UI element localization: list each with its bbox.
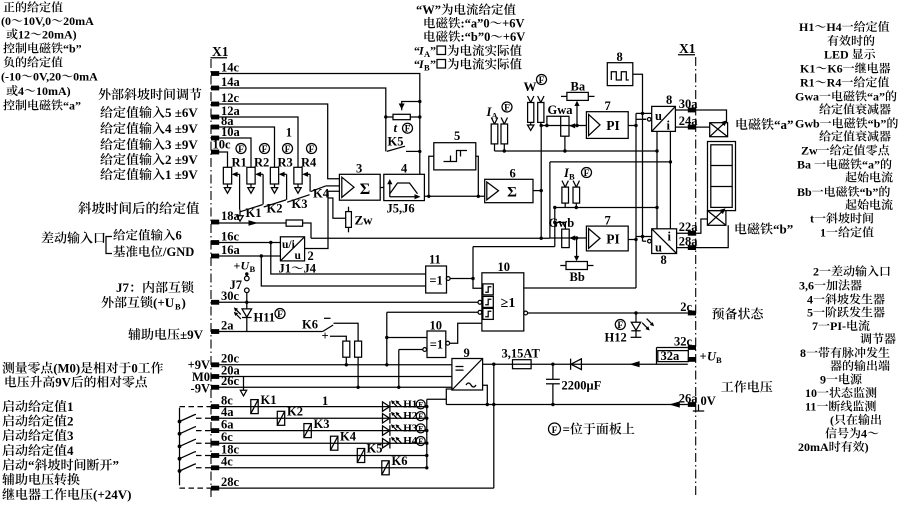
svg-text:28c: 28c [221, 475, 240, 489]
svg-text:-9V: -9V [191, 381, 210, 395]
svg-text:K4: K4 [340, 429, 357, 443]
svg-text:≥1: ≥1 [501, 296, 516, 311]
svg-text:8: 8 [666, 93, 672, 107]
svg-text:辅助电压±9V: 辅助电压±9V [128, 327, 204, 342]
svg-text:Σ: Σ [360, 181, 370, 198]
svg-text:K5: K5 [388, 135, 404, 149]
svg-text:斜坡时间后的给定值: 斜坡时间后的给定值 [78, 201, 200, 216]
svg-text:继电器工作电压(+24V): 继电器工作电压(+24V) [2, 487, 131, 502]
svg-text:(0～10V,0～20mA: (0～10V,0～20mA [1, 14, 94, 28]
svg-text:=位于面板上: =位于面板上 [563, 422, 635, 437]
svg-text:电磁铁“a”: 电磁铁“a” [735, 117, 794, 132]
svg-text:J7: J7 [230, 278, 243, 292]
svg-text:负的给定值: 负的给定值 [3, 56, 63, 70]
svg-text:1一给定值: 1一给定值 [820, 226, 874, 240]
svg-text:H3: H3 [403, 422, 418, 434]
svg-text:F: F [418, 437, 423, 446]
svg-text:启动给定值4: 启动给定值4 [2, 443, 74, 458]
svg-text:32c: 32c [674, 334, 693, 348]
svg-text:Bb一电磁铁“b”的: Bb一电磁铁“b”的 [797, 185, 890, 199]
svg-text:W: W [524, 79, 537, 94]
svg-text:F: F [309, 145, 315, 155]
svg-text:R3: R3 [278, 155, 293, 169]
svg-text:给定值衰减器: 给定值衰减器 [819, 130, 891, 144]
svg-text:11: 11 [429, 252, 441, 266]
svg-text:“W”为电流给定值: “W”为电流给定值 [416, 3, 517, 17]
svg-text:R1～R4一给定值: R1～R4一给定值 [800, 76, 889, 90]
svg-text:Ba 一电磁铁“a”的: Ba 一电磁铁“a”的 [797, 158, 892, 172]
svg-text:K1: K1 [261, 393, 277, 407]
svg-text:或12～20mA): 或12～20mA) [6, 28, 77, 42]
svg-text:14c: 14c [221, 60, 240, 74]
svg-text:起始电流: 起始电流 [845, 171, 893, 185]
svg-text:R4: R4 [301, 155, 317, 169]
svg-text:Bb: Bb [570, 270, 585, 284]
svg-text:2一差动输入口: 2一差动输入口 [813, 265, 891, 279]
svg-text:信号为4～: 信号为4～ [825, 427, 879, 441]
svg-text:10c: 10c [213, 138, 232, 152]
svg-text:10: 10 [498, 260, 511, 274]
svg-text:K2: K2 [287, 405, 303, 419]
svg-text:): ) [182, 295, 186, 310]
svg-text:为电流实际值: 为电流实际值 [447, 58, 523, 72]
svg-text:启动给定值2: 启动给定值2 [2, 414, 74, 429]
svg-text:11一断线监测: 11一断线监测 [805, 400, 876, 414]
svg-text:X1: X1 [679, 41, 696, 56]
svg-text:Zw一给定值零点: Zw一给定值零点 [801, 144, 890, 158]
svg-text:F: F [418, 401, 423, 410]
svg-text:u: u [295, 250, 302, 262]
svg-text:电压升高9V后的相对零点: 电压升高9V后的相对零点 [4, 376, 148, 390]
svg-text:(-10～0V,20～0mA: (-10～0V,20～0mA [1, 70, 98, 84]
svg-text:+: + [234, 259, 241, 273]
svg-text:t一斜坡时间: t一斜坡时间 [810, 212, 874, 226]
svg-text:u: u [655, 109, 662, 123]
svg-text:F: F [617, 321, 623, 331]
svg-text:t: t [394, 120, 398, 135]
svg-text:+: + [700, 350, 707, 364]
svg-text:H1: H1 [403, 398, 417, 410]
svg-text:辅助电压转换: 辅助电压转换 [2, 472, 80, 487]
svg-text:启动“斜坡时间断开”: 启动“斜坡时间断开” [2, 458, 119, 473]
svg-text:B: B [175, 302, 181, 312]
svg-text:测量零点(M0)是相对于0工作: 测量零点(M0)是相对于0工作 [2, 362, 164, 376]
svg-text:给定值输入3 ±9V: 给定值输入3 ±9V [100, 137, 198, 152]
svg-text:30a: 30a [679, 97, 699, 111]
svg-text:10一状态监测: 10一状态监测 [805, 386, 877, 400]
svg-text:+: + [322, 329, 329, 343]
svg-text:32a: 32a [661, 349, 681, 363]
svg-text:”: ” [430, 44, 436, 58]
svg-text:8: 8 [617, 50, 623, 64]
svg-text:K1～K6一继电器: K1～K6一继电器 [800, 62, 891, 76]
svg-text:28a: 28a [679, 234, 699, 248]
svg-text:给定值输入5 ±6V: 给定值输入5 ±6V [100, 105, 198, 120]
svg-text:16c: 16c [221, 229, 240, 243]
svg-text:J1～J4: J1～J4 [279, 262, 317, 276]
svg-text:H4: H4 [403, 435, 418, 447]
svg-text:给定值输入1 ±9V: 给定值输入1 ±9V [100, 167, 198, 182]
svg-text:X1: X1 [212, 44, 229, 59]
svg-text:K2: K2 [267, 202, 283, 216]
svg-text:2200μF: 2200μF [562, 379, 602, 393]
svg-text:预备状态: 预备状态 [712, 307, 764, 322]
svg-text:6: 6 [510, 167, 516, 181]
svg-text:1: 1 [286, 126, 292, 140]
svg-text:K6: K6 [302, 318, 318, 332]
svg-text:K1: K1 [246, 206, 262, 220]
svg-text:电磁铁:“b”0～+6V: 电磁铁:“b”0～+6V [423, 30, 525, 44]
svg-text:26a: 26a [679, 391, 699, 405]
svg-text:启动给定值1: 启动给定值1 [2, 399, 74, 414]
svg-text:i: i [667, 119, 671, 133]
svg-text:Σ: Σ [507, 185, 517, 201]
svg-text:F: F [277, 310, 283, 320]
svg-text:7: 7 [605, 99, 611, 113]
svg-text:有效时的: 有效时的 [827, 34, 875, 48]
svg-text:14a: 14a [221, 75, 241, 89]
svg-text:给定值输入4 ±9V: 给定值输入4 ±9V [100, 121, 198, 136]
svg-text:Gwb: Gwb [549, 216, 575, 230]
svg-text:26c: 26c [221, 374, 240, 388]
svg-text:工作电压: 工作电压 [721, 380, 773, 395]
svg-text:K4: K4 [313, 186, 330, 200]
svg-text:A: A [492, 111, 499, 121]
svg-text:9一电源: 9一电源 [820, 373, 862, 387]
svg-text:调节器: 调节器 [860, 332, 896, 346]
svg-text:12c: 12c [221, 91, 240, 105]
svg-text:18a: 18a [221, 209, 241, 223]
svg-text:(只在输出: (只在输出 [830, 413, 882, 427]
svg-text:7一PI-电流: 7一PI-电流 [812, 319, 870, 333]
svg-text:8: 8 [661, 253, 667, 267]
svg-text:H1～H4一给定值: H1～H4一给定值 [799, 20, 890, 34]
svg-text:0V: 0V [701, 394, 716, 408]
svg-text:3,6一加法器: 3,6一加法器 [799, 279, 862, 293]
svg-text:电磁铁“b”: 电磁铁“b” [734, 222, 793, 237]
svg-text:=1: =1 [430, 338, 443, 352]
svg-text:9: 9 [464, 346, 470, 360]
svg-text:B: B [250, 264, 256, 274]
svg-text:R1: R1 [232, 155, 247, 169]
svg-text:B: B [716, 355, 722, 365]
svg-text:F: F [262, 145, 268, 155]
svg-text:8一带有脉冲发生: 8一带有脉冲发生 [800, 346, 890, 360]
svg-text:PI: PI [606, 232, 620, 247]
svg-text:H12: H12 [605, 331, 627, 345]
svg-text:Ba: Ba [571, 80, 586, 94]
svg-text:F: F [552, 426, 558, 436]
svg-text:4: 4 [401, 162, 408, 176]
svg-text:F: F [418, 425, 423, 434]
svg-text:给定值输入6: 给定值输入6 [113, 229, 182, 243]
svg-text:F: F [405, 125, 411, 135]
svg-text:5: 5 [454, 129, 460, 143]
svg-text:24a: 24a [679, 114, 699, 128]
svg-text:给定值衰减器: 给定值衰减器 [819, 103, 891, 117]
svg-text:F: F [238, 145, 244, 155]
svg-text:R2: R2 [254, 155, 269, 169]
svg-text:正的给定值: 正的给定值 [3, 1, 63, 15]
svg-text:Gwa: Gwa [548, 103, 574, 117]
svg-text:F: F [584, 169, 590, 179]
svg-text:5一阶跃发生器: 5一阶跃发生器 [807, 306, 885, 320]
svg-text:F: F [539, 76, 545, 86]
svg-text:LED 显示: LED 显示 [824, 48, 876, 62]
svg-text:差动输入口: 差动输入口 [41, 231, 106, 246]
svg-text:22a: 22a [679, 220, 699, 234]
svg-text:=1: =1 [429, 273, 442, 287]
svg-text:J5,J6: J5,J6 [387, 202, 415, 216]
svg-text:控制电磁铁“b”: 控制电磁铁“b” [3, 42, 82, 56]
svg-text:2a: 2a [221, 318, 234, 332]
svg-text:为电流实际值: 为电流实际值 [447, 44, 523, 58]
svg-text:Zw: Zw [355, 213, 374, 228]
svg-text:F: F [504, 103, 510, 113]
svg-text:K3: K3 [292, 197, 308, 211]
svg-text:1: 1 [322, 394, 328, 408]
svg-text:H11: H11 [254, 311, 276, 325]
svg-text:器的输出端: 器的输出端 [830, 359, 890, 373]
svg-text:F: F [418, 412, 423, 421]
svg-text:16a: 16a [221, 243, 241, 257]
svg-text:外部斜坡时间调节: 外部斜坡时间调节 [98, 87, 202, 102]
svg-text:B: B [569, 172, 575, 182]
svg-text:基准电位/GND: 基准电位/GND [113, 245, 194, 259]
svg-text:K6: K6 [392, 454, 408, 468]
svg-text:7: 7 [605, 213, 611, 227]
svg-text:Gwa一电磁铁“a”的: Gwa一电磁铁“a”的 [795, 90, 897, 104]
svg-text:4一斜坡发生器: 4一斜坡发生器 [807, 293, 885, 307]
svg-text:控制电磁铁“a”: 控制电磁铁“a” [3, 99, 81, 113]
svg-text:3: 3 [356, 162, 362, 176]
svg-text:i: i [668, 230, 672, 244]
svg-text:电磁铁:“a”0～+6V: 电磁铁:“a”0～+6V [423, 17, 525, 31]
svg-text:给定值输入2 ±9V: 给定值输入2 ±9V [100, 152, 198, 167]
svg-text:外部互锁(+U: 外部互锁(+U [101, 295, 175, 310]
svg-text:J7：内部互锁: J7：内部互锁 [116, 280, 194, 295]
svg-text:10: 10 [430, 318, 443, 332]
svg-text:K3: K3 [314, 417, 330, 431]
svg-text:或4～10mA): 或4～10mA) [6, 84, 71, 98]
svg-text:起始电流: 起始电流 [845, 198, 893, 212]
svg-text:Gwb一电磁铁“b”的: Gwb一电磁铁“b”的 [795, 117, 898, 131]
svg-text:K5: K5 [367, 442, 383, 456]
svg-text:20mA时有效): 20mA时有效) [798, 440, 869, 454]
svg-text:3,15AT: 3,15AT [502, 346, 541, 360]
svg-text:PI: PI [606, 118, 620, 133]
svg-text:F: F [285, 145, 291, 155]
svg-text:H2: H2 [403, 410, 418, 422]
svg-text:”: ” [430, 57, 436, 71]
svg-text:启动给定值3: 启动给定值3 [2, 428, 74, 443]
svg-text:4c: 4c [221, 455, 233, 469]
svg-text:2c: 2c [680, 300, 692, 314]
